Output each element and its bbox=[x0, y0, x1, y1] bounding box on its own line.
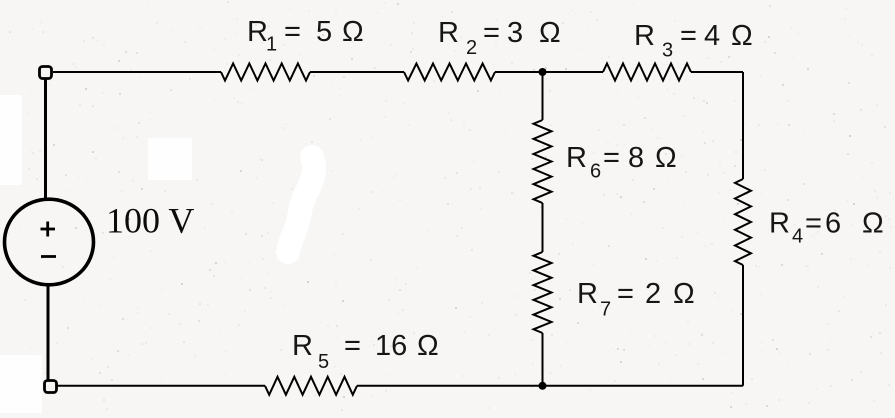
svg-text:7: 7 bbox=[600, 299, 611, 321]
svg-text:8: 8 bbox=[628, 142, 644, 174]
svg-text:=: = bbox=[603, 142, 620, 174]
svg-text:R: R bbox=[438, 17, 459, 49]
svg-text:R: R bbox=[566, 142, 587, 174]
svg-text:Ω: Ω bbox=[862, 208, 884, 240]
svg-text:R: R bbox=[577, 278, 598, 310]
svg-text:16: 16 bbox=[375, 330, 407, 362]
svg-text:R: R bbox=[634, 20, 655, 52]
svg-text:Ω: Ω bbox=[673, 278, 695, 310]
svg-text:=: = bbox=[680, 20, 697, 52]
svg-text:Ω: Ω bbox=[342, 16, 364, 48]
svg-text:R: R bbox=[247, 16, 268, 48]
svg-text:Ω: Ω bbox=[655, 142, 677, 174]
svg-text:Ω: Ω bbox=[539, 17, 561, 49]
svg-text:6: 6 bbox=[590, 161, 601, 183]
svg-text:2: 2 bbox=[645, 278, 661, 310]
svg-text:100 V: 100 V bbox=[106, 201, 194, 241]
svg-text:5: 5 bbox=[316, 16, 332, 48]
svg-text:R: R bbox=[292, 330, 313, 362]
svg-text:1: 1 bbox=[266, 34, 277, 56]
svg-text:4: 4 bbox=[704, 20, 720, 52]
svg-text:=: = bbox=[483, 17, 500, 49]
svg-text:3: 3 bbox=[662, 40, 673, 62]
svg-text:R: R bbox=[769, 208, 790, 240]
svg-text:=: = bbox=[617, 278, 634, 310]
svg-text:=: = bbox=[284, 16, 301, 48]
svg-text:Ω: Ω bbox=[417, 330, 439, 362]
svg-text:=: = bbox=[344, 330, 361, 362]
svg-text:2: 2 bbox=[466, 37, 477, 59]
svg-text:3: 3 bbox=[507, 17, 523, 49]
svg-text:5: 5 bbox=[318, 351, 329, 373]
svg-text:Ω: Ω bbox=[731, 20, 753, 52]
svg-text:4: 4 bbox=[792, 226, 803, 248]
svg-text:6: 6 bbox=[825, 208, 841, 240]
svg-text:=: = bbox=[805, 208, 822, 240]
